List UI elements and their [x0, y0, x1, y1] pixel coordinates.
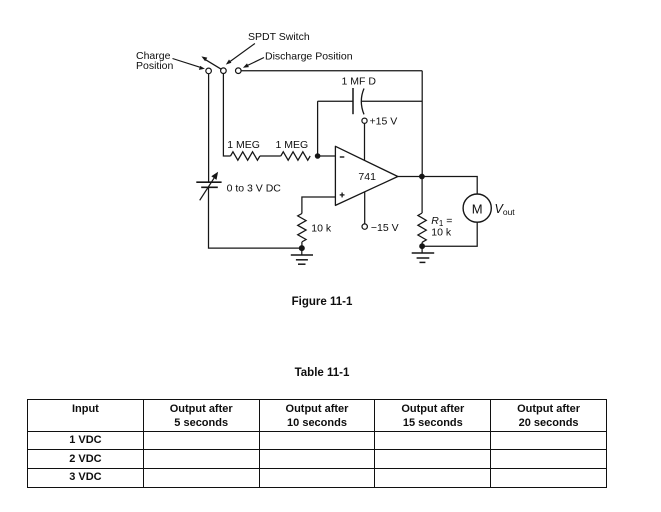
- wire capacitor right lead: [362, 100, 423, 102]
- svg-text:1 MEG: 1 MEG: [227, 139, 260, 151]
- table 11-1: [27, 399, 607, 488]
- wire +15V terminal to op-amp top: [364, 123, 366, 160]
- wire left vertical capacitor to inverting node: [317, 101, 319, 156]
- svg-text:Position: Position: [136, 60, 174, 72]
- wire meter bottom to R1 ground node: [422, 222, 477, 246]
- svg-text:−15 V: −15 V: [371, 222, 399, 234]
- svg-text:0 to 3 V DC: 0 to 3 V DC: [227, 183, 282, 195]
- wire R1 top lead: [421, 177, 423, 214]
- wire R1 bottom lead: [421, 242, 423, 246]
- wire inverting node to op-amp: [318, 155, 336, 157]
- wire battery - down and right to ground node: [209, 187, 302, 248]
- wire discharge terminal to top-right corner: [241, 70, 422, 72]
- switch terminal charge position: [206, 68, 212, 74]
- switch terminal pole: [221, 68, 227, 74]
- battery 0 to 3 V DC short plate: [201, 186, 218, 188]
- wire switch pole down to resistor chain: [223, 74, 230, 157]
- resistor 10 k at + input: [298, 214, 306, 242]
- svg-text:10 k: 10 k: [431, 226, 452, 238]
- junction node output: [419, 174, 425, 180]
- junction node R1 ground: [419, 243, 425, 249]
- ground at 10k: [291, 255, 313, 264]
- wire op-amp bottom to -15V terminal: [364, 192, 366, 224]
- svg-text:10 k: 10 k: [311, 223, 332, 235]
- terminal +15 V: [362, 118, 367, 123]
- caption Table 11-1: [0, 367, 653, 379]
- op-amp non-inverting input label: [340, 193, 345, 198]
- meter M: [463, 194, 491, 222]
- resistor 1 MEG left: [231, 152, 260, 160]
- capacitor C1 1 MF D left plate: [352, 88, 354, 114]
- wire charge terminal down to battery +: [208, 74, 210, 182]
- wire op-amp output to meter branch: [398, 177, 477, 195]
- op-amp inverting input label: [340, 156, 345, 158]
- svg-text:+15 V: +15 V: [370, 116, 398, 128]
- pointer Discharge Position to terminal: [243, 58, 264, 68]
- resistor 1 MEG right: [281, 152, 310, 160]
- svg-text:SPDT Switch: SPDT Switch: [248, 31, 310, 43]
- junction node 10k ground: [299, 245, 305, 251]
- capacitor C1 1 MF D right plate (curved): [361, 89, 364, 115]
- battery variable arrow: [200, 172, 218, 201]
- caption Figure 11-1: [0, 296, 653, 308]
- switch terminal discharge position: [236, 68, 242, 74]
- wire ground stem at R1: [421, 246, 423, 253]
- ground at R1: [412, 253, 435, 262]
- op-amp U1 741: [335, 146, 397, 205]
- svg-text:1 MEG: 1 MEG: [276, 139, 309, 151]
- switch blade with arrow: [201, 56, 221, 69]
- wire op-amp + input to 10k resistor: [302, 197, 336, 214]
- terminal -15 V: [362, 224, 367, 229]
- wire right vertical from discharge wire to output node: [421, 71, 423, 177]
- svg-text:741: 741: [358, 171, 376, 183]
- wire 10k resistor bottom lead: [301, 242, 303, 248]
- svg-text:M: M: [472, 202, 483, 217]
- svg-text:1 MF D: 1 MF D: [342, 76, 377, 88]
- wire capacitor left lead: [318, 100, 353, 102]
- svg-text:Vout: Vout: [495, 202, 516, 217]
- resistor R1 10 k at output: [418, 213, 426, 242]
- battery 0 to 3 V DC long plate: [196, 181, 221, 183]
- pointer Charge Position to terminal: [173, 59, 205, 70]
- pointer SPDT Switch to pole: [226, 44, 255, 65]
- junction node inverting input: [315, 153, 321, 159]
- wire ground stem at 10k: [301, 248, 303, 255]
- svg-text:Discharge Position: Discharge Position: [265, 50, 353, 62]
- wire between 1 MEG resistors: [260, 155, 281, 157]
